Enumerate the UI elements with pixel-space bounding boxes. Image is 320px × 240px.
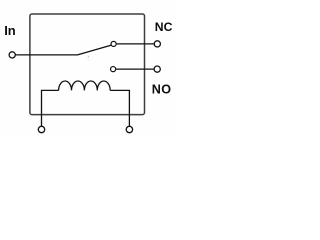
relay body K1 outline <box>30 14 145 115</box>
wire NO <box>116 68 154 70</box>
svg-text:NC: NC <box>155 20 173 34</box>
armature linkage dash <box>87 56 89 60</box>
svg-text:In: In <box>4 23 16 38</box>
contact NO <box>111 67 116 72</box>
terminal In <box>9 52 15 58</box>
wire NC <box>116 43 154 45</box>
wire common <box>15 54 77 56</box>
wire coil right lead <box>110 90 129 126</box>
svg-text:NO: NO <box>152 82 172 96</box>
contact NC <box>111 41 116 46</box>
wire coil left lead <box>42 90 59 126</box>
terminal coil B <box>126 126 132 132</box>
terminal coil A <box>38 126 44 132</box>
coil L1 <box>59 81 111 90</box>
terminal NO <box>154 66 160 72</box>
terminal NC <box>154 41 160 47</box>
armature switch SW <box>78 45 112 55</box>
